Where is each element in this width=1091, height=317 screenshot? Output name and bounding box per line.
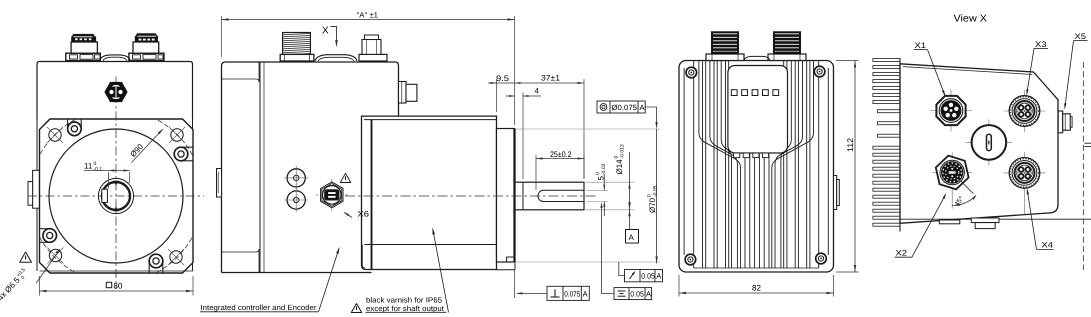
svg-text:X5: X5 xyxy=(1075,32,1087,41)
svg-text:0.075: 0.075 xyxy=(564,290,580,299)
svg-text:0.05: 0.05 xyxy=(630,290,644,299)
svg-text:11: 11 xyxy=(84,162,93,171)
svg-text:82: 82 xyxy=(752,283,762,292)
svg-text:37±1: 37±1 xyxy=(541,74,561,83)
svg-text:-0.03: -0.03 xyxy=(601,163,607,175)
svg-text:Ø0.075: Ø0.075 xyxy=(612,103,638,112)
svg-text:112: 112 xyxy=(846,138,855,152)
svg-text:X1: X1 xyxy=(915,41,927,50)
svg-text:A: A xyxy=(629,233,635,242)
svg-text:25±0.2: 25±0.2 xyxy=(550,150,572,159)
svg-text:-0.05: -0.05 xyxy=(652,185,658,197)
svg-text:"A" ±1: "A" ±1 xyxy=(357,11,379,20)
svg-text:X: X xyxy=(322,26,329,37)
svg-text:X6: X6 xyxy=(358,210,370,219)
svg-text:-0.1: -0.1 xyxy=(94,167,103,173)
svg-text:X2: X2 xyxy=(896,248,908,257)
svg-text:X4: X4 xyxy=(1042,241,1054,250)
svg-text:View X: View X xyxy=(954,13,988,24)
svg-text:except for shaft output: except for shaft output xyxy=(366,304,445,313)
svg-text:Integrated controller and Enco: Integrated controller and Encoder xyxy=(201,303,318,312)
svg-text:5: 5 xyxy=(597,176,606,181)
svg-text:Ø70: Ø70 xyxy=(648,197,657,213)
svg-text:X3: X3 xyxy=(1035,40,1047,49)
svg-text:Ø14: Ø14 xyxy=(615,159,624,175)
svg-text:0.05: 0.05 xyxy=(641,272,655,281)
svg-text:4: 4 xyxy=(535,87,540,96)
svg-text:80: 80 xyxy=(113,281,123,290)
svg-text:-0.013: -0.013 xyxy=(619,144,625,158)
svg-text:9.5: 9.5 xyxy=(496,74,510,83)
